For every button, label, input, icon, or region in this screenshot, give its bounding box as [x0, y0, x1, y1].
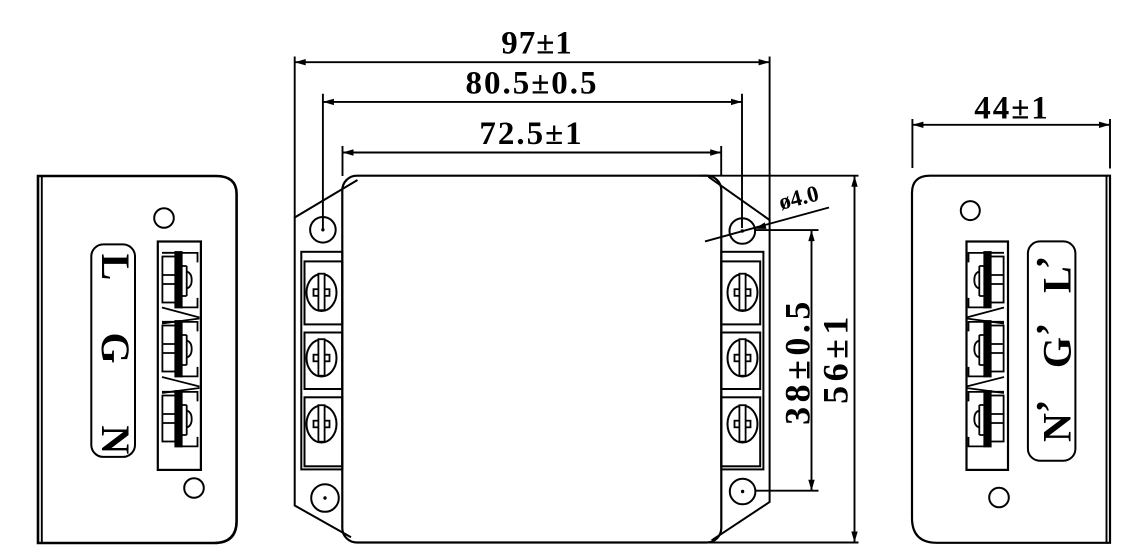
dim 56 extension lines — [700, 176, 859, 543]
svg-text:56±1: 56±1 — [816, 312, 856, 404]
left terminal unit 3 — [162, 391, 198, 447]
right terminal block outline — [967, 242, 1009, 470]
screw A3 — [307, 405, 337, 442]
right label plate — [1028, 241, 1076, 460]
left block inter-unit wedges — [162, 308, 200, 394]
left panel bottom hole — [184, 478, 204, 498]
screw B2 — [728, 339, 758, 376]
mounting hole bottom-right — [730, 479, 756, 505]
dim 38 arrows — [808, 230, 814, 491]
svg-text:G: G — [93, 332, 138, 363]
dim 56 arrows — [851, 176, 857, 543]
dim 72.5 arrows — [343, 149, 722, 155]
right flange outline — [709, 177, 770, 541]
screw A1 — [307, 274, 337, 311]
mounting hole top-right — [730, 218, 756, 244]
right terminal unit 1 (mirrored) — [969, 252, 1005, 308]
left terminal block outline — [158, 242, 201, 470]
dim 97 line — [295, 61, 770, 63]
svg-text:80.5±0.5: 80.5±0.5 — [465, 66, 598, 102]
right panel bottom hole — [989, 488, 1009, 508]
svg-text:97±1: 97±1 — [501, 26, 573, 62]
svg-text:’: ’ — [1028, 323, 1073, 336]
right terminal unit 3 (mirrored) — [969, 391, 1005, 447]
screw B3 — [728, 405, 758, 442]
dim 72.5 extension lines — [343, 146, 722, 176]
dia 4.0 leader line — [705, 208, 829, 242]
svg-text:’: ’ — [1028, 256, 1073, 269]
svg-text:’: ’ — [1028, 400, 1073, 413]
mounting hole bottom-left — [311, 484, 339, 512]
dim 80.5 line — [323, 101, 742, 103]
dia 4.0 leader arrow — [755, 222, 767, 229]
dim 80.5 extension lines — [323, 94, 742, 230]
mounting hole top-left — [310, 217, 336, 243]
body outline — [342, 176, 721, 543]
svg-text:G: G — [1035, 337, 1080, 368]
dim 72.5 line — [343, 152, 722, 154]
svg-text:N: N — [93, 425, 138, 454]
svg-text:38±0.5: 38±0.5 — [778, 297, 818, 425]
right panel outline — [912, 176, 1110, 543]
dim 97 arrows — [295, 59, 770, 65]
left terminal unit 1 — [162, 252, 198, 308]
hole centre dots — [321, 228, 744, 500]
dim 44 line — [912, 124, 1110, 126]
left terminal unit 2 — [162, 321, 198, 377]
dim 80.5 arrows — [323, 99, 742, 105]
right terminal unit 2 (mirrored) — [969, 321, 1005, 377]
left label plate — [91, 244, 135, 457]
svg-text:L: L — [93, 254, 138, 281]
svg-text:72.5±1: 72.5±1 — [479, 116, 583, 152]
dim 56 line — [854, 176, 856, 543]
right panel top hole — [961, 201, 980, 220]
left panel outline — [38, 176, 237, 543]
dim 97 extension lines — [295, 57, 770, 221]
screw A2 — [307, 339, 337, 376]
svg-text:L: L — [1035, 266, 1080, 293]
left panel top hole — [154, 208, 174, 228]
dim 38 line — [811, 230, 813, 491]
right block inter-unit wedges — [967, 308, 1005, 394]
svg-text:44±1: 44±1 — [974, 91, 1050, 127]
left screw terminal strip — [301, 252, 342, 470]
dim 44 extension lines — [912, 119, 1110, 169]
dim 44 arrows — [912, 122, 1110, 128]
right screw terminal strip — [721, 252, 763, 470]
svg-text:N: N — [1035, 413, 1080, 442]
screw B1 — [728, 274, 758, 311]
left flange outline — [295, 180, 358, 537]
dim 38 extension ticks — [756, 230, 819, 491]
